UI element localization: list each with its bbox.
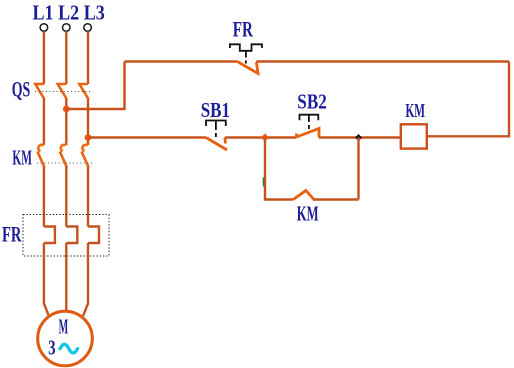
contactor KM main pole 2 [60, 145, 67, 167]
svg-text:M: M [59, 315, 69, 339]
wire L3 terminal to QS [87, 31, 89, 84]
wire FR to motor pole3 [83, 243, 88, 316]
junction node branch A (orange diamond) [261, 134, 269, 142]
wire selfhold bottom right [314, 198, 359, 200]
wire coil to right rail [427, 135, 510, 137]
svg-text:L1 L2 L3: L1 L2 L3 [33, 0, 105, 24]
green artifact tick [262, 178, 264, 187]
KM linkage dotted [37, 162, 92, 164]
wire top rail left of FR contact [125, 60, 238, 62]
svg-text:FR: FR [2, 222, 22, 247]
coil KM box [401, 124, 427, 148]
wire control tap L2 to top rail [66, 62, 124, 110]
wire QS to KM pole1 [43, 99, 45, 146]
button SB1 actuator (black) [206, 121, 226, 138]
wire L1 terminal to QS [43, 31, 45, 84]
wire selfhold branch down [264, 138, 266, 201]
switch QS pole 1 [35, 84, 44, 99]
QS linkage dotted [35, 91, 92, 93]
terminal L1 [40, 24, 48, 32]
button SB2 NO contact blade [297, 129, 320, 138]
svg-text:SB1: SB1 [201, 98, 230, 122]
FR contact blade [237, 62, 258, 74]
svg-text:FR: FR [233, 16, 254, 41]
wire control tap L3 to SB1 [88, 136, 206, 138]
motor M circle [38, 311, 93, 366]
contact KM auxiliary (self-holding) blade [293, 191, 315, 201]
wire selfhold bottom left [264, 198, 293, 200]
wire SB1 to SB2 [225, 136, 297, 138]
wire KM to FR heater pole2 [65, 167, 67, 227]
wire FR to motor pole2 [65, 243, 67, 312]
terminal L3 [84, 24, 92, 32]
contactor KM main pole 3 [82, 145, 89, 167]
button SB2 actuator (black) [300, 115, 319, 129]
junction node on L3 (control tap) [85, 134, 92, 141]
svg-text:KM: KM [12, 146, 32, 170]
junction node B (black diamond) [355, 134, 362, 141]
FR heater element pole2 [66, 227, 77, 244]
svg-text:SB2: SB2 [297, 89, 327, 113]
wire KM to FR heater pole1 [43, 167, 45, 227]
wire L2 terminal to QS [65, 31, 67, 84]
svg-text:QS: QS [12, 77, 31, 102]
wire FR to motor pole1 [44, 243, 49, 316]
wire top rail right of FR contact [256, 60, 509, 62]
FR heater dashed box [23, 215, 109, 257]
FR heater element pole1 [44, 227, 55, 244]
wire QS to KM pole2 [65, 99, 67, 146]
svg-text:KM: KM [406, 100, 426, 122]
wire QS to KM pole3 [87, 99, 89, 146]
wire KM to FR heater pole3 [87, 167, 89, 227]
wire SB2 to coil [319, 136, 401, 138]
motor ~ phase symbol [60, 344, 78, 353]
contactor KM main pole 1 [37, 145, 44, 167]
switch QS pole 2 [58, 84, 67, 99]
svg-text:KM: KM [297, 201, 319, 225]
FR heater element pole3 [88, 227, 99, 244]
terminal L2 [63, 24, 71, 32]
wire right rail down [508, 62, 510, 137]
junction node on L2 (control tap) [63, 106, 70, 113]
button SB1 NC contact blade [206, 138, 227, 151]
wire selfhold branch up [357, 138, 359, 200]
svg-text:3: 3 [48, 335, 55, 359]
switch QS pole 3 [79, 84, 88, 99]
relay FR NC contact symbol (black) [230, 44, 262, 63]
